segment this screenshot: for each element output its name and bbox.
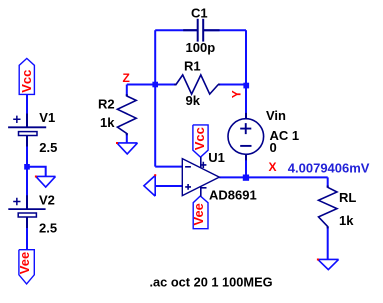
svg-text:Vee: Vee bbox=[191, 203, 206, 225]
svg-text:Y: Y bbox=[230, 90, 244, 98]
svg-text:Vin: Vin bbox=[266, 108, 286, 123]
svg-text:V1: V1 bbox=[39, 110, 55, 125]
svg-text:C1: C1 bbox=[191, 6, 208, 21]
svg-text:Z: Z bbox=[123, 71, 130, 85]
svg-text:.ac oct 20 1 100MEG: .ac oct 20 1 100MEG bbox=[150, 274, 273, 289]
svg-text:Vcc: Vcc bbox=[192, 127, 207, 150]
svg-text:R1: R1 bbox=[184, 59, 201, 74]
svg-text:AD8691: AD8691 bbox=[209, 188, 257, 203]
svg-text:100p: 100p bbox=[186, 40, 216, 55]
svg-text:RL: RL bbox=[339, 190, 356, 205]
svg-text:4.0079406mV: 4.0079406mV bbox=[288, 160, 370, 175]
svg-text:2.5: 2.5 bbox=[39, 220, 57, 235]
svg-text:2.5: 2.5 bbox=[39, 140, 57, 155]
svg-text:V2: V2 bbox=[39, 193, 55, 208]
svg-text:Vcc: Vcc bbox=[19, 70, 34, 93]
svg-text:R2: R2 bbox=[98, 97, 115, 112]
svg-text:1k: 1k bbox=[339, 213, 354, 228]
svg-text:U1: U1 bbox=[208, 150, 225, 165]
svg-text:Vee: Vee bbox=[17, 252, 32, 274]
svg-text:X: X bbox=[269, 160, 277, 174]
svg-text:0: 0 bbox=[270, 140, 277, 155]
svg-text:9k: 9k bbox=[186, 93, 201, 108]
svg-text:1k: 1k bbox=[100, 115, 115, 130]
